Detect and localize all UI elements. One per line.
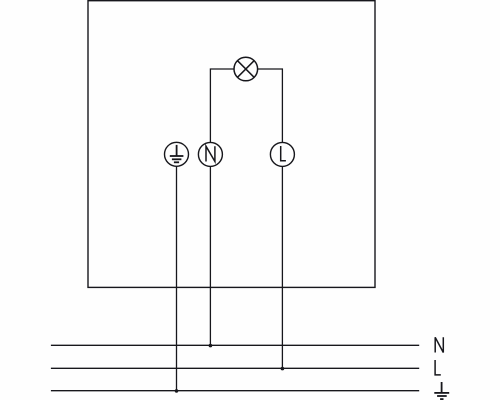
wire L terminal down to L bus [281,166,283,368]
junction dot on L bus [281,367,285,371]
PE bus line [51,390,419,392]
wire from lamp right to L terminal [258,69,283,143]
letter N in terminal [206,146,215,161]
letter L in terminal [281,146,286,161]
earth symbol at PE bus end [434,382,449,399]
label L [435,360,441,375]
terminal L [270,142,294,166]
device enclosure box [88,1,375,288]
terminal N [198,142,222,166]
L bus line [51,367,419,369]
wire N terminal down to N bus [209,166,211,345]
wire from lamp left to N terminal [210,69,234,142]
junction dot on N bus [209,344,213,348]
wire PE terminal down to PE bus [176,166,178,390]
label N [435,337,443,352]
terminal PE (earth) [165,142,189,166]
junction dot on PE bus [175,389,179,393]
earth symbol inside PE terminal [170,145,184,162]
lamp X1 [234,57,258,81]
N bus line [51,344,419,346]
